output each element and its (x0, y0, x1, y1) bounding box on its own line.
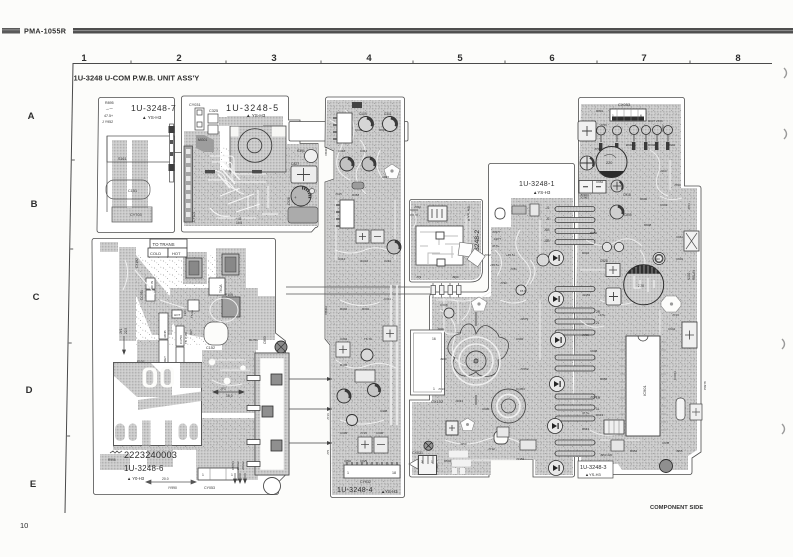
svg-text:CY101: CY101 (192, 212, 196, 222)
svg-text:R901: R901 (596, 109, 604, 113)
svg-text:J900: J900 (440, 357, 447, 361)
svg-text:K102: K102 (687, 272, 691, 280)
svg-text:C911: C911 (676, 235, 683, 239)
svg-text:CX08: CX08 (440, 303, 448, 307)
svg-text:C992: C992 (516, 337, 524, 341)
svg-text:C829: C829 (360, 459, 368, 463)
svg-text:R902: R902 (668, 143, 676, 147)
svg-text:C325: C325 (209, 109, 218, 113)
svg-text:J2: J2 (546, 217, 550, 221)
svg-text:J Y952: J Y952 (102, 120, 113, 124)
svg-text:C304: C304 (340, 337, 348, 341)
svg-text:1: 1 (612, 114, 614, 118)
svg-text:TO P.3W: TO P.3W (184, 332, 188, 344)
svg-text:P109: P109 (225, 293, 233, 297)
svg-text:8: 8 (735, 53, 740, 64)
svg-text:J1B: J1B (544, 228, 550, 232)
svg-text:C312: C312 (360, 149, 368, 153)
svg-text:▲ Y0-H3: ▲ Y0-H3 (127, 476, 145, 481)
svg-text:6: 6 (549, 53, 554, 64)
svg-text:J2B: J2B (544, 239, 550, 243)
svg-text:C: C (33, 292, 40, 303)
svg-text:RL?01: RL?01 (249, 338, 258, 342)
svg-text:COLD: COLD (150, 251, 161, 256)
svg-text:C918: C918 (623, 193, 631, 197)
svg-text:C109: C109 (359, 112, 367, 116)
svg-text:1: 1 (81, 53, 87, 64)
svg-text:JY02: JY02 (484, 253, 491, 257)
svg-text:D90? 270K: D90? 270K (648, 119, 663, 123)
svg-text:HOT: HOT (172, 251, 181, 256)
svg-text:CX182: CX182 (135, 258, 139, 268)
svg-text:R950: R950 (590, 231, 598, 235)
svg-text:+45.5+: +45.5+ (506, 253, 516, 257)
svg-text:R318: R318 (352, 193, 360, 197)
svg-text:2L: 2L (596, 321, 600, 325)
svg-text:R313: R313 (379, 128, 387, 132)
svg-text:C827: C827 (291, 162, 299, 166)
svg-text:R990: R990 (640, 197, 648, 201)
svg-text:CY031: CY031 (189, 103, 201, 107)
svg-text:1U-3248 U-COM P.W.B. UNIT ASS': 1U-3248 U-COM P.W.B. UNIT ASS'Y (74, 74, 200, 83)
svg-text:JY56: JY56 (594, 147, 601, 151)
svg-text:T6.0A: T6.0A (219, 284, 223, 293)
svg-text:47.5+: 47.5+ (492, 244, 500, 248)
svg-text:JY56: JY56 (582, 333, 589, 337)
svg-text:A920: A920 (382, 175, 389, 179)
svg-text:+3.5+: +3.5+ (598, 313, 606, 317)
svg-text:VB303: VB303 (324, 147, 328, 156)
svg-text:C802: C802 (344, 459, 352, 463)
svg-text:16: 16 (432, 337, 436, 341)
svg-text:C3750: C3750 (179, 335, 183, 344)
svg-text:1U-3248-5: 1U-3248-5 (226, 103, 279, 113)
svg-text:C308: C308 (380, 409, 388, 413)
svg-text:20Ωx2: 20Ωx2 (236, 461, 240, 470)
svg-text:C305: C305 (340, 431, 348, 435)
svg-text:TO TRANS: TO TRANS (153, 242, 175, 247)
svg-text:→─: →─ (105, 106, 114, 111)
svg-text:R302: R302 (340, 307, 348, 311)
svg-text:JY1: JY1 (119, 328, 123, 334)
svg-text:C152: C152 (206, 346, 215, 350)
svg-text:D902: D902 (626, 143, 634, 147)
svg-text:RET: RET (163, 356, 167, 362)
svg-text:1: 1 (433, 387, 435, 391)
svg-text:VB302: VB302 (324, 306, 328, 315)
svg-text:▲YS-H3: ▲YS-H3 (533, 190, 551, 195)
svg-text:1: 1 (231, 473, 233, 477)
svg-text:1: 1 (202, 473, 204, 477)
svg-text:T6.7A: T6.7A (364, 337, 372, 341)
svg-text:C210: C210 (384, 259, 392, 263)
svg-text:D904: D904 (582, 251, 590, 255)
svg-text:C901: C901 (676, 257, 684, 261)
svg-text:HOT: HOT (174, 313, 181, 317)
svg-text:JY81: JY81 (510, 267, 517, 271)
svg-text:C109: C109 (355, 128, 363, 132)
svg-text:E: E (30, 479, 36, 490)
svg-text:CX053: CX053 (618, 102, 631, 107)
svg-text:▲ YS-H3: ▲ YS-H3 (142, 115, 162, 120)
svg-text:CX011: CX011 (673, 371, 677, 380)
svg-text:S161: S161 (118, 157, 126, 161)
svg-text:IC901: IC901 (642, 385, 647, 396)
svg-text:JY13: JY13 (360, 431, 367, 435)
svg-text:C318: C318 (338, 149, 346, 153)
svg-text:C853: C853 (263, 336, 267, 344)
svg-text:D902: D902 (444, 459, 452, 463)
svg-text:R895: R895 (105, 101, 114, 105)
svg-text:C955: C955 (624, 213, 632, 217)
svg-text:4: 4 (366, 53, 372, 64)
svg-text:1: 1 (431, 460, 433, 464)
svg-text:JY06: JY06 (437, 327, 444, 331)
svg-text:C928: C928 (600, 259, 608, 263)
svg-text:/Y990: /Y990 (168, 486, 177, 490)
svg-text:3: 3 (421, 460, 423, 464)
svg-text:JY052: JY052 (520, 367, 529, 371)
svg-text:15.0: 15.0 (520, 289, 526, 293)
svg-text:R995: R995 (108, 458, 116, 462)
svg-text:J955: J955 (676, 449, 683, 453)
svg-text:1U-3248-4: 1U-3248-4 (337, 487, 373, 494)
svg-text:R301: R301 (362, 307, 370, 311)
svg-text:+: + (294, 195, 297, 200)
svg-text:C528: C528 (287, 197, 291, 205)
svg-text:220: 220 (606, 161, 612, 165)
svg-text:J990: J990 (452, 275, 459, 279)
svg-text:C311: C311 (384, 297, 391, 301)
svg-text:CX102: CX102 (431, 399, 444, 404)
svg-text:R306: R306 (340, 363, 348, 367)
svg-text:20.0: 20.0 (162, 477, 169, 481)
svg-text:36NB: 36NB (163, 330, 167, 338)
svg-text:1R77: 1R77 (494, 237, 502, 241)
svg-text:JY12: JY12 (488, 447, 495, 451)
svg-text:JY077: JY077 (492, 230, 501, 234)
svg-text:RET: RET (189, 329, 193, 335)
svg-text:JC903: JC903 (580, 193, 589, 197)
svg-text:JY03: JY03 (687, 203, 691, 210)
svg-text:1U-3248-7: 1U-3248-7 (131, 103, 176, 113)
svg-text:C943: C943 (660, 203, 668, 207)
svg-text:2223240003: 2223240003 (124, 450, 177, 460)
svg-text:C962: C962 (596, 180, 604, 184)
svg-text:JY13: JY13 (438, 387, 445, 391)
svg-text:C8704: C8704 (231, 461, 235, 470)
svg-text:22.5: 22.5 (124, 328, 128, 334)
svg-text:C908: C908 (590, 349, 598, 353)
svg-text:J1013: J1013 (455, 399, 464, 403)
svg-text:D948: D948 (644, 223, 652, 227)
svg-text:J953 220: J953 220 (600, 453, 613, 457)
svg-text:47.5+: 47.5+ (582, 411, 590, 415)
svg-text:J1579: J1579 (520, 317, 529, 321)
svg-text:C311: C311 (384, 112, 392, 116)
svg-text:CY703: CY703 (130, 213, 142, 217)
svg-text:JY03: JY03 (590, 395, 597, 399)
svg-text:RELAY: RELAY (692, 269, 696, 280)
svg-text:3: 3 (271, 53, 276, 64)
svg-text:6: 6 (640, 114, 642, 118)
svg-text:▲YS-H3: ▲YS-H3 (381, 489, 398, 494)
svg-text:COMPONENT SIDE: COMPONENT SIDE (650, 505, 703, 511)
svg-text:P09?8: P09?8 (703, 381, 707, 390)
svg-text:J1453: J1453 (516, 457, 525, 461)
svg-text:JY16: JY16 (326, 413, 330, 420)
svg-text:R952: R952 (630, 449, 638, 453)
svg-text:JY9: JY9 (416, 275, 422, 279)
svg-text:+45.5+: +45.5+ (490, 263, 500, 267)
svg-text:2: 2 (176, 53, 181, 64)
svg-text:PMA-1055R: PMA-1055R (24, 27, 67, 36)
svg-text:JY15: JY15 (335, 192, 342, 196)
svg-text:20Ωx2: 20Ωx2 (241, 461, 245, 470)
svg-text:B: B (31, 199, 38, 210)
svg-text:JY13: JY13 (672, 313, 679, 317)
svg-text:CY032: CY032 (360, 480, 371, 484)
svg-text:C944: C944 (668, 327, 676, 331)
svg-text:C936: C936 (482, 407, 490, 411)
svg-text:C314: C314 (338, 257, 346, 261)
svg-text:D913: D913 (596, 413, 604, 417)
svg-text:MG01: MG01 (198, 138, 207, 142)
svg-text:C151: C151 (128, 189, 137, 193)
svg-text:1L: 1L (596, 407, 600, 411)
svg-text:A: A (28, 111, 35, 122)
svg-text:C6802: C6802 (435, 463, 439, 472)
svg-text:F101: F101 (183, 309, 187, 316)
svg-text:J163: J163 (660, 169, 667, 173)
svg-text:R913: R913 (582, 427, 590, 431)
svg-text:CY053: CY053 (204, 486, 215, 490)
svg-text:T5.0A: T5.0A (190, 310, 194, 318)
svg-text:D: D (26, 385, 33, 396)
svg-text:J1: J1 (546, 206, 550, 210)
svg-text:J450: J450 (460, 442, 467, 446)
svg-text:1U-3248-6: 1U-3248-6 (124, 464, 164, 473)
svg-text:1U-3248-3: 1U-3248-3 (580, 465, 606, 471)
svg-text:JY5: JY5 (326, 449, 330, 455)
svg-text:JY56: JY56 (600, 123, 607, 127)
svg-text:14.5: 14.5 (236, 221, 242, 225)
svg-text:J1453: J1453 (582, 293, 591, 297)
svg-text:1: 1 (347, 471, 349, 475)
svg-text:K391: K391 (297, 149, 305, 153)
svg-text:C9?8: C9?8 (662, 441, 670, 445)
svg-text:JY92: JY92 (500, 281, 507, 285)
svg-text:R903: R903 (648, 143, 656, 147)
svg-text:5: 5 (457, 53, 463, 64)
svg-text:R956: R956 (600, 377, 608, 381)
svg-text:C306: C306 (376, 431, 384, 435)
svg-text:JY56: JY56 (661, 125, 665, 132)
svg-text:IC310: IC310 (360, 259, 368, 263)
svg-text:10: 10 (20, 521, 28, 530)
svg-text:JY00: JY00 (674, 183, 681, 187)
svg-text:CX031: CX031 (412, 451, 423, 455)
svg-text:1U-3248-1: 1U-3248-1 (519, 181, 555, 188)
svg-text:18: 18 (392, 471, 396, 475)
svg-text:C1053: C1053 (516, 387, 525, 391)
svg-text:DC IN: DC IN (150, 281, 154, 289)
svg-text:CC761: CC761 (140, 290, 144, 300)
svg-text:JY1: JY1 (220, 387, 226, 391)
svg-text:▲YS-H3: ▲YS-H3 (585, 472, 602, 477)
svg-text:7: 7 (641, 53, 646, 64)
svg-text:15.0: 15.0 (226, 394, 233, 398)
svg-text:JY02: JY02 (414, 205, 421, 209)
svg-text:47.5+: 47.5+ (104, 114, 113, 118)
svg-text:220: 220 (655, 257, 660, 261)
